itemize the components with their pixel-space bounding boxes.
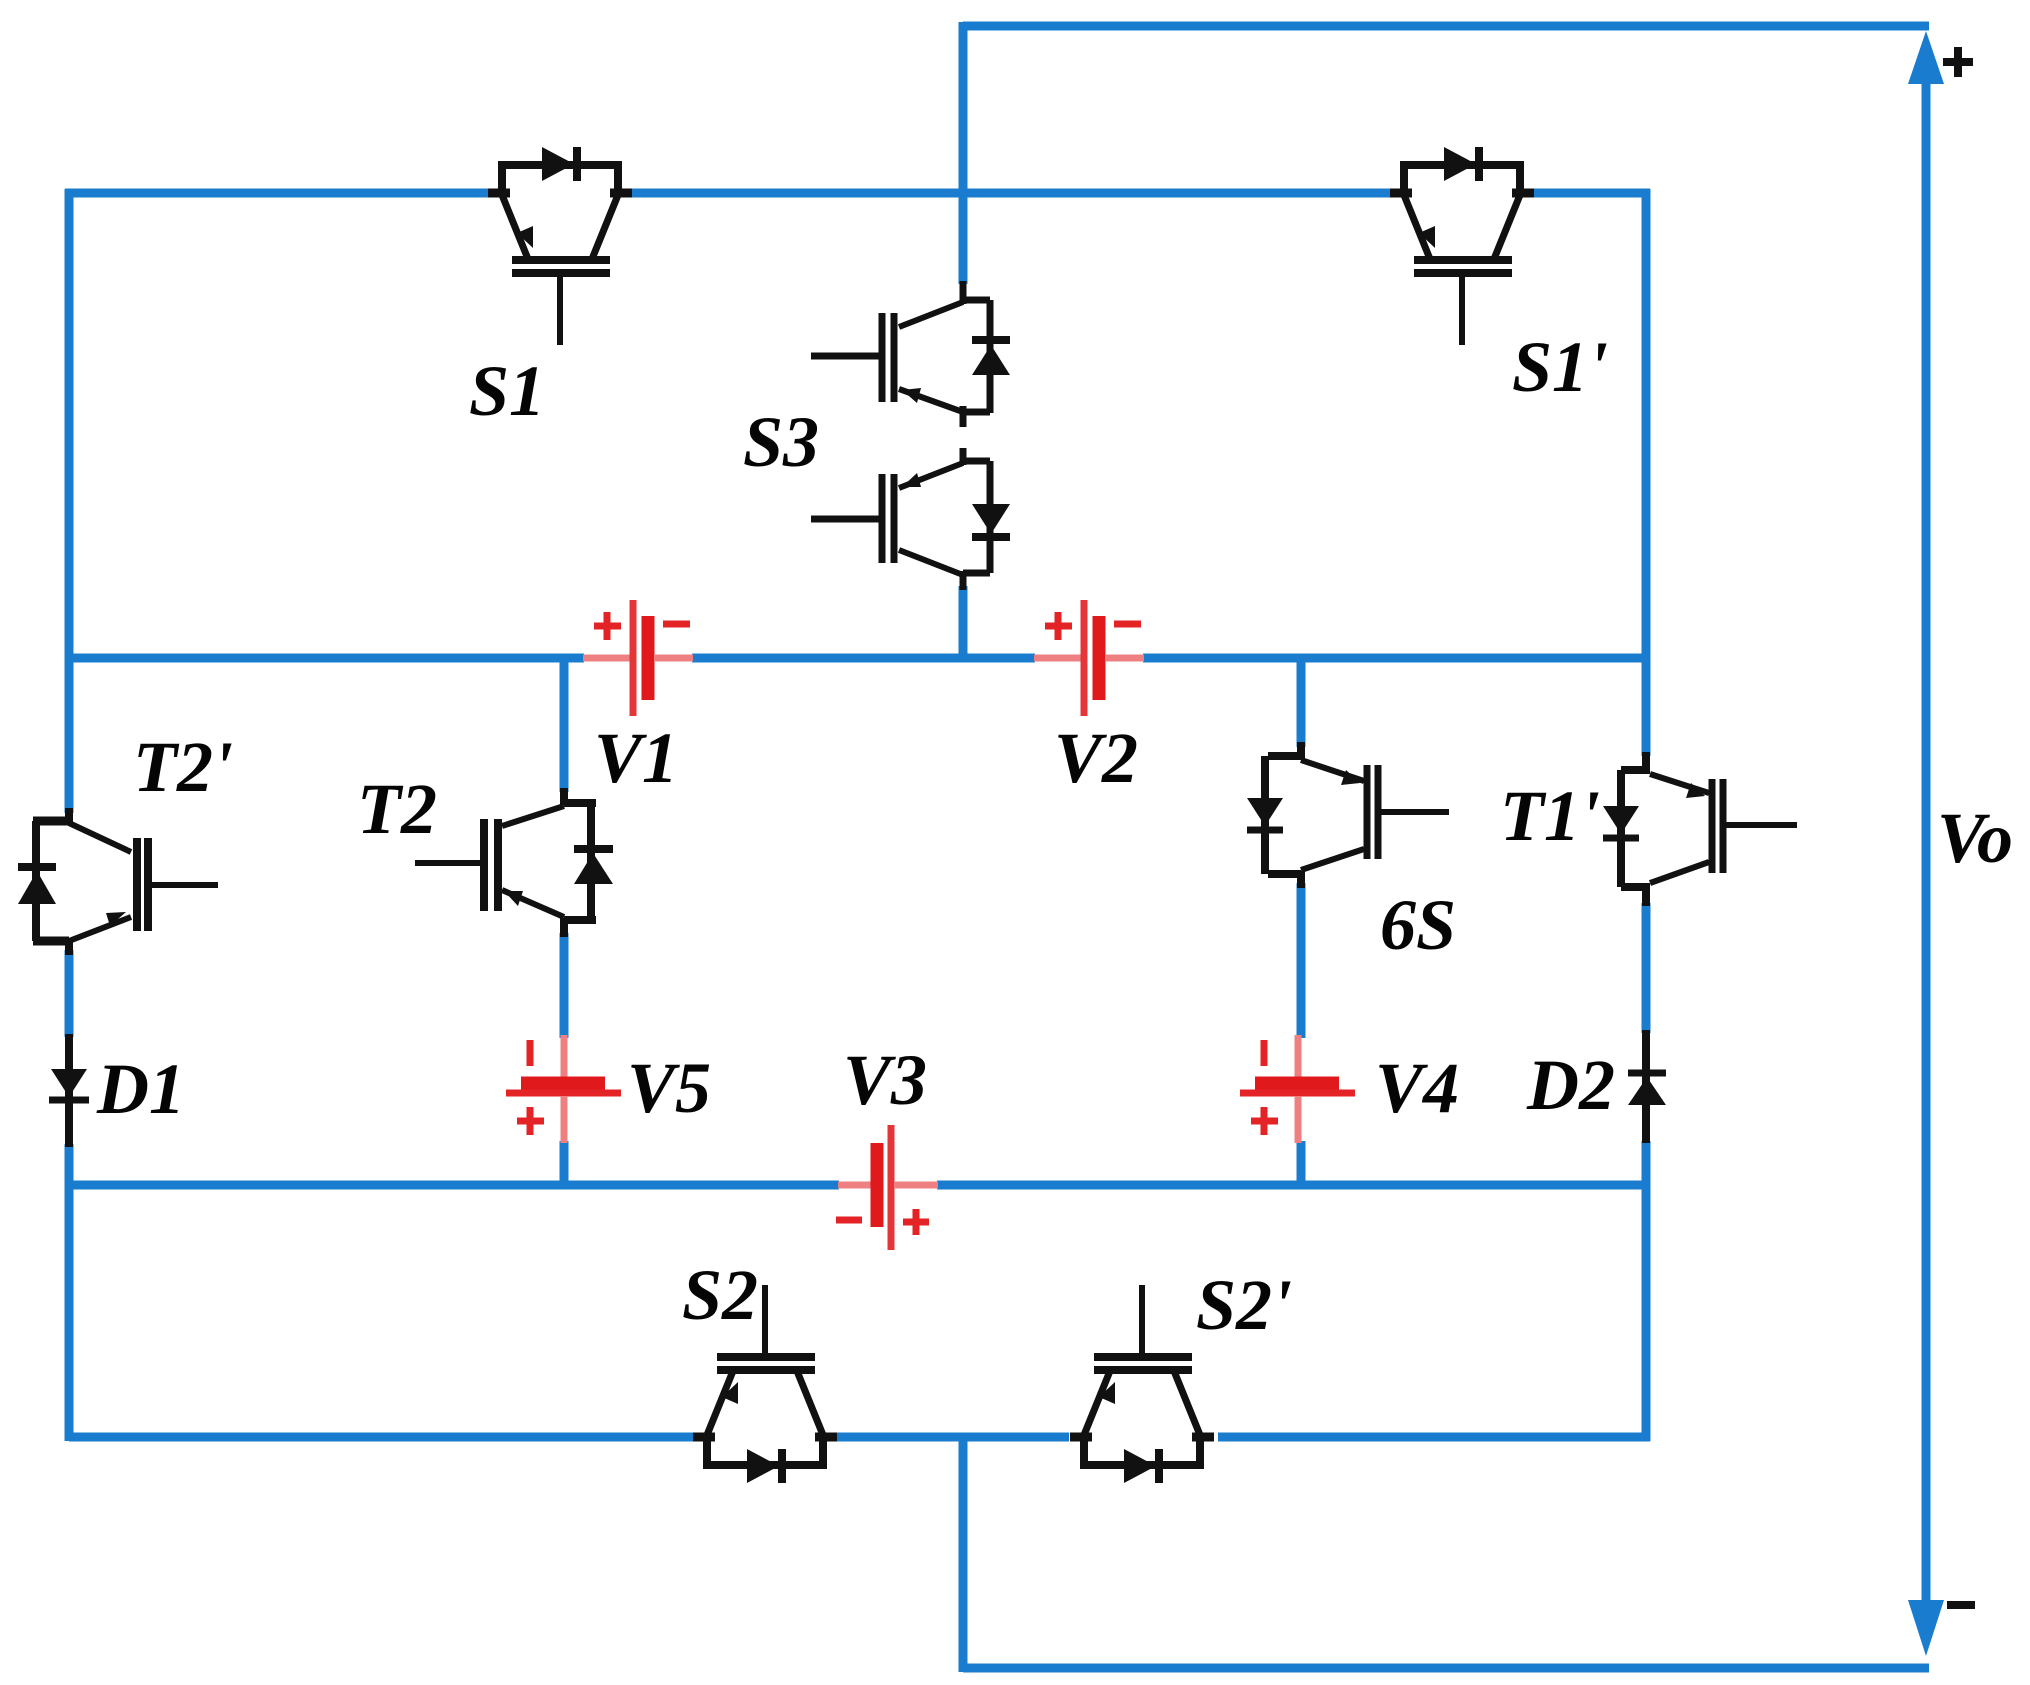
wire bottom bus [963, 1664, 1929, 1673]
svg-text:T2: T2 [357, 769, 437, 849]
wire branch x1301 V4 to low bus [1297, 1141, 1306, 1185]
node Vo top arrowhead [1908, 31, 1944, 84]
capacitor V1 [583, 600, 693, 716]
wire top bus [963, 22, 1929, 31]
node plus sign of Vo [1943, 47, 1973, 77]
capacitor V3 [836, 1125, 938, 1250]
transistor S2 [693, 1285, 837, 1483]
svg-text:S2: S2 [682, 1255, 758, 1335]
wire S2 row right [1218, 1433, 1650, 1442]
wire middle bus right [1143, 654, 1646, 663]
wire S1 row right segment [1531, 189, 1650, 198]
capacitor V4 [1240, 1035, 1355, 1143]
wire right rail lower [1642, 1141, 1651, 1441]
svg-text:D2: D2 [1526, 1045, 1615, 1125]
diode D1 [49, 1034, 89, 1147]
svg-text:S1': S1' [1512, 327, 1608, 407]
wire top-center vertical to S3 [959, 22, 968, 284]
wire left rail between T2' and D1 [65, 950, 74, 1037]
capacitor V2 [1034, 600, 1144, 716]
wire branch x564 T2 to V5 [560, 933, 569, 1038]
svg-text:T1': T1' [1500, 776, 1600, 856]
svg-text:V1: V1 [594, 718, 678, 798]
transistor S1' [1390, 147, 1534, 345]
wire branch x1301 above 6S [1297, 654, 1306, 747]
wire Vo output rail [1922, 78, 1931, 1604]
svg-text:S1: S1 [469, 351, 545, 431]
svg-text:D1: D1 [96, 1049, 185, 1129]
wire S1 row left segment [65, 189, 490, 198]
transistor T1' [1603, 752, 1797, 906]
transistor S3 lower [811, 448, 1010, 590]
wire middle bus left [69, 654, 584, 663]
svg-text:V4: V4 [1375, 1048, 1459, 1128]
svg-text:T2': T2' [133, 727, 233, 807]
transistor S1 [488, 147, 632, 345]
wire middle bus center [692, 654, 1035, 663]
svg-text:S3: S3 [743, 402, 819, 482]
svg-text:Vo: Vo [1937, 798, 2013, 878]
transistor S3 upper [811, 281, 1010, 427]
svg-text:V3: V3 [843, 1040, 927, 1120]
svg-text:S2': S2' [1196, 1265, 1292, 1345]
wire low bus left [69, 1181, 839, 1190]
wire low bus right [937, 1181, 1646, 1190]
svg-text:V2: V2 [1054, 718, 1138, 798]
wire S3 bottom to middle bus [959, 586, 968, 662]
wire branch x963 down [959, 1437, 968, 1672]
capacitor V5 [506, 1035, 621, 1143]
transistor T2' [18, 808, 218, 955]
wire branch x564 V5 to low bus [560, 1141, 569, 1185]
wire S1 row middle segment [630, 189, 1392, 198]
wire right rail upper [1642, 189, 1651, 756]
diode D2 [1628, 1030, 1666, 1143]
svg-text:V5: V5 [627, 1048, 711, 1128]
transistor T2 [415, 788, 613, 937]
svg-text:6S: 6S [1380, 885, 1456, 965]
node Vo bottom arrowhead [1908, 1600, 1944, 1656]
wire left rail lower [65, 1144, 74, 1441]
wire right rail between T1' and D2 [1642, 903, 1651, 1033]
wire S2 row left [69, 1433, 695, 1442]
wire S2 row center [836, 1433, 1069, 1442]
wire branch x564 above T2 [560, 654, 569, 792]
node minus sign of Vo [1947, 1601, 1975, 1609]
transistor 6S [1247, 742, 1449, 888]
wire left rail upper [65, 189, 74, 813]
wire branch x1301 6S to V4 [1297, 883, 1306, 1038]
transistor S2' [1070, 1285, 1214, 1483]
